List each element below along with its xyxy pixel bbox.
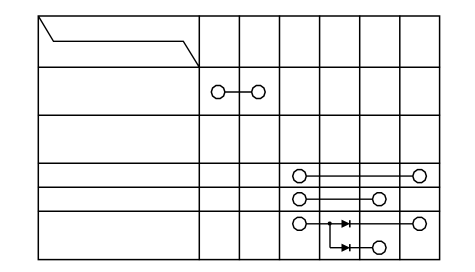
terminal row C right pin <box>413 217 427 230</box>
terminal row A right pin <box>413 170 427 183</box>
row line y=67 <box>38 66 439 68</box>
terminal row B right pin <box>373 193 387 206</box>
column line x=199 <box>198 16 200 260</box>
terminal pin 2 <box>252 86 266 99</box>
terminal row A left pin <box>293 170 307 183</box>
diode D2 <box>342 244 350 251</box>
cable duct polyline (Z-shape in top-left row) <box>38 16 199 67</box>
column line x=239 <box>238 16 240 260</box>
terminal pin 1 <box>211 86 225 99</box>
table outer border <box>38 16 439 260</box>
wire terminal row C left to junction and diode <box>306 223 342 225</box>
row line y=187 <box>38 186 439 188</box>
wire branch horizontal to diode D2 <box>330 247 342 249</box>
row line y=211 <box>38 210 439 212</box>
terminal branch pin <box>373 241 387 254</box>
terminal row C left pin <box>293 217 307 230</box>
row line y=163 <box>38 162 439 164</box>
terminal row B left pin <box>293 193 307 206</box>
column line x=280 <box>279 16 281 260</box>
column line x=320 <box>319 16 321 260</box>
diode D1 <box>342 220 350 227</box>
column line x=360 <box>359 16 361 260</box>
wire terminal row A left to right <box>306 175 413 177</box>
junction dot <box>328 222 332 226</box>
wire branch vertical drop <box>329 224 331 248</box>
wire diode D2 cathode to terminal <box>350 247 372 249</box>
row line y=115 <box>38 114 439 116</box>
wire terminal X1:1 to X1:2 <box>225 91 252 93</box>
column line x=400 <box>399 16 401 260</box>
wire terminal row B left to right <box>306 198 372 200</box>
wire diode D1 cathode to right terminal <box>350 223 413 225</box>
